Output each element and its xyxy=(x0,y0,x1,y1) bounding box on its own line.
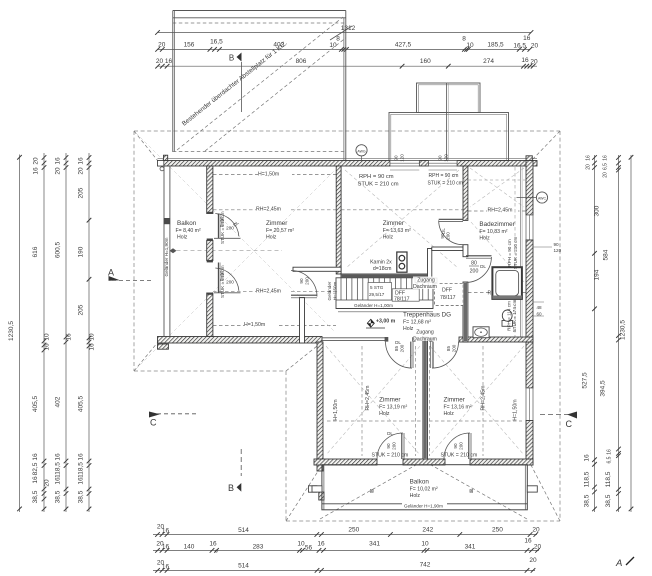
svg-text:Zugang: Zugang xyxy=(416,330,434,336)
svg-text:STUK = 210 cm: STUK = 210 cm xyxy=(372,453,409,459)
svg-text:B: B xyxy=(229,54,234,63)
svg-text:405,5: 405,5 xyxy=(78,395,85,412)
svg-text:RH=2,45m: RH=2,45m xyxy=(481,386,487,411)
svg-text:82,5: 82,5 xyxy=(32,462,39,475)
svg-text:RH=2,45m: RH=2,45m xyxy=(488,208,513,214)
svg-text:F= 13,16 m²: F= 13,16 m² xyxy=(444,405,472,411)
svg-text:Geländer H=1,90m: Geländer H=1,90m xyxy=(164,237,169,276)
svg-text:205: 205 xyxy=(78,187,85,198)
svg-text:78/117: 78/117 xyxy=(394,296,410,302)
svg-text:16: 16 xyxy=(32,476,39,484)
svg-text:20: 20 xyxy=(531,43,539,50)
svg-text:Holz: Holz xyxy=(410,493,421,499)
svg-text:RH=2,45m: RH=2,45m xyxy=(256,207,281,213)
svg-text:F= 20,57 m²: F= 20,57 m² xyxy=(266,228,294,234)
svg-text:806: 806 xyxy=(296,58,307,65)
svg-text:Zimmer: Zimmer xyxy=(444,397,465,404)
svg-text:16: 16 xyxy=(603,155,609,161)
svg-text:85: 85 xyxy=(394,346,399,352)
svg-text:F= 12,68 m²: F= 12,68 m² xyxy=(403,320,431,326)
svg-text:190: 190 xyxy=(78,246,85,257)
svg-text:DL: DL xyxy=(441,228,446,234)
svg-text:Badezimmer: Badezimmer xyxy=(479,221,514,228)
svg-text:90: 90 xyxy=(386,443,391,449)
svg-text:38,5: 38,5 xyxy=(78,490,85,503)
svg-text:402: 402 xyxy=(55,396,62,407)
svg-text:90: 90 xyxy=(394,155,399,161)
svg-text:STUK = 210 cm: STUK = 210 cm xyxy=(428,180,463,186)
svg-text:38,5: 38,5 xyxy=(32,490,39,503)
svg-text:205: 205 xyxy=(78,304,85,315)
svg-text:16: 16 xyxy=(55,477,62,485)
svg-text:200: 200 xyxy=(470,269,479,275)
svg-text:120: 120 xyxy=(554,248,562,253)
svg-text:Holz: Holz xyxy=(403,326,414,332)
svg-text:200: 200 xyxy=(452,344,457,352)
svg-text:Treppenhaus DG: Treppenhaus DG xyxy=(403,312,451,319)
svg-text:20: 20 xyxy=(530,59,538,66)
svg-text:80: 80 xyxy=(471,261,477,267)
svg-text:16: 16 xyxy=(78,453,85,461)
svg-text:Kamin 2x: Kamin 2x xyxy=(370,260,392,266)
svg-text:20: 20 xyxy=(156,58,164,65)
svg-text:20: 20 xyxy=(529,557,537,564)
svg-text:20: 20 xyxy=(603,172,609,178)
svg-text:RH=2,45m: RH=2,45m xyxy=(256,289,281,295)
svg-text:H=1,50m: H=1,50m xyxy=(333,399,339,420)
svg-text:16: 16 xyxy=(162,528,170,535)
svg-text:90: 90 xyxy=(554,242,560,247)
svg-text:Dachraum: Dachraum xyxy=(413,337,437,343)
svg-text:B: B xyxy=(228,483,234,493)
svg-text:16: 16 xyxy=(209,541,217,548)
svg-text:90: 90 xyxy=(438,155,443,161)
svg-text:20: 20 xyxy=(532,527,540,534)
svg-text:RH=2,45m: RH=2,45m xyxy=(365,386,371,411)
svg-text:427,5: 427,5 xyxy=(395,42,412,49)
svg-text:405,5: 405,5 xyxy=(32,395,39,412)
svg-text:20: 20 xyxy=(78,167,85,175)
svg-text:20: 20 xyxy=(158,42,166,49)
svg-text:Holz: Holz xyxy=(383,235,394,241)
svg-text:DL: DL xyxy=(395,340,401,345)
svg-text:⊠: ⊠ xyxy=(469,488,473,494)
svg-text:STUK = 210 cm: STUK = 210 cm xyxy=(220,265,225,298)
svg-text:Geländer H=1,00m: Geländer H=1,00m xyxy=(354,303,393,308)
svg-text:16,5: 16,5 xyxy=(513,43,526,50)
svg-text:A: A xyxy=(108,268,114,278)
svg-text:274: 274 xyxy=(483,58,494,65)
svg-text:118,5: 118,5 xyxy=(55,462,62,478)
svg-text:38,5: 38,5 xyxy=(605,494,612,507)
svg-text:16: 16 xyxy=(32,453,39,461)
svg-text:H=1,50m: H=1,50m xyxy=(258,171,279,177)
svg-text:10: 10 xyxy=(466,42,474,49)
svg-text:600,5: 600,5 xyxy=(55,241,62,258)
svg-text:F= 10,83 m²: F= 10,83 m² xyxy=(479,229,507,235)
svg-text:16: 16 xyxy=(607,449,613,455)
svg-text:STUK = 174 cm: STUK = 174 cm xyxy=(512,300,517,333)
svg-text:118,5: 118,5 xyxy=(584,471,591,487)
svg-text:185,5: 185,5 xyxy=(487,42,504,49)
svg-text:85: 85 xyxy=(446,346,451,352)
svg-text:Zimmer: Zimmer xyxy=(266,220,287,227)
svg-text:242: 242 xyxy=(422,527,433,534)
svg-text:6,5: 6,5 xyxy=(603,163,609,170)
svg-text:16: 16 xyxy=(66,333,73,341)
svg-text:Holz: Holz xyxy=(177,235,188,241)
svg-text:120: 120 xyxy=(444,154,449,162)
svg-text:10: 10 xyxy=(297,541,305,548)
svg-text:5 STG: 5 STG xyxy=(370,285,384,290)
svg-text:341: 341 xyxy=(369,541,380,548)
svg-text:10: 10 xyxy=(89,333,96,341)
svg-text:+3,00 m: +3,00 m xyxy=(376,319,396,325)
svg-text:16: 16 xyxy=(89,343,96,351)
svg-text:200: 200 xyxy=(305,277,310,285)
svg-text:16: 16 xyxy=(586,155,592,161)
svg-text:118,5: 118,5 xyxy=(605,471,612,487)
svg-text:200: 200 xyxy=(459,442,464,450)
svg-text:Balkon: Balkon xyxy=(177,220,197,227)
svg-text:Dachraum: Dachraum xyxy=(413,284,437,290)
svg-text:Holz: Holz xyxy=(266,235,277,241)
svg-text:20: 20 xyxy=(33,157,40,165)
svg-text:16: 16 xyxy=(55,157,62,165)
svg-text:16: 16 xyxy=(317,541,325,548)
svg-text:DL: DL xyxy=(480,264,486,269)
svg-text:DL: DL xyxy=(387,431,393,436)
svg-text:16: 16 xyxy=(165,58,173,65)
svg-text:Balkon: Balkon xyxy=(410,479,430,486)
svg-text:200: 200 xyxy=(400,344,405,352)
svg-text:120: 120 xyxy=(400,154,405,162)
svg-text:RPH = 114 cm: RPH = 114 cm xyxy=(507,301,512,331)
svg-text:156: 156 xyxy=(184,42,195,49)
svg-text:16: 16 xyxy=(55,453,62,461)
svg-text:16: 16 xyxy=(521,57,529,64)
svg-text:584: 584 xyxy=(603,249,610,260)
svg-text:16,5: 16,5 xyxy=(210,39,223,46)
svg-text:RPH = 90 cm: RPH = 90 cm xyxy=(507,239,512,267)
svg-text:38,5: 38,5 xyxy=(55,490,62,503)
svg-text:RPH = 90 cm: RPH = 90 cm xyxy=(359,174,394,180)
svg-text:10: 10 xyxy=(421,541,429,548)
svg-text:20: 20 xyxy=(586,164,592,170)
svg-text:F= 13,19 m²: F= 13,19 m² xyxy=(379,405,407,411)
svg-text:Geländer: Geländer xyxy=(327,281,332,300)
svg-text:16: 16 xyxy=(524,538,532,545)
svg-text:514: 514 xyxy=(238,563,249,570)
svg-text:616: 616 xyxy=(32,246,39,257)
svg-text:90: 90 xyxy=(299,278,304,284)
svg-text:⊠: ⊠ xyxy=(370,488,374,494)
svg-text:d=18cm: d=18cm xyxy=(373,266,392,272)
svg-text:1230,5: 1230,5 xyxy=(8,321,15,341)
svg-text:200: 200 xyxy=(392,442,397,450)
svg-text:38,5: 38,5 xyxy=(584,494,591,507)
svg-text:78/117: 78/117 xyxy=(440,295,456,301)
svg-text:90: 90 xyxy=(453,443,458,449)
svg-text:20: 20 xyxy=(44,479,51,487)
svg-text:250: 250 xyxy=(348,527,359,534)
svg-text:56: 56 xyxy=(305,545,313,552)
svg-text:8: 8 xyxy=(336,36,340,43)
svg-text:Holz: Holz xyxy=(379,411,390,417)
svg-text:283: 283 xyxy=(253,544,264,551)
svg-text:16: 16 xyxy=(78,157,85,165)
svg-text:16: 16 xyxy=(523,35,531,42)
svg-text:250: 250 xyxy=(492,527,503,534)
svg-text:A: A xyxy=(615,558,622,569)
svg-text:118,5: 118,5 xyxy=(78,462,85,478)
svg-text:9: 9 xyxy=(215,549,218,554)
svg-text:20: 20 xyxy=(55,167,62,175)
svg-text:H=1,50m: H=1,50m xyxy=(333,281,338,300)
svg-text:AWG: AWG xyxy=(357,149,366,153)
svg-text:200: 200 xyxy=(226,280,234,285)
svg-text:341: 341 xyxy=(465,544,476,551)
svg-text:Geländer H=1,90m: Geländer H=1,90m xyxy=(404,504,443,509)
svg-text:H=1,50m: H=1,50m xyxy=(513,399,519,420)
svg-text:16: 16 xyxy=(33,167,40,175)
svg-text:10: 10 xyxy=(44,333,51,341)
svg-text:STUK = 210 cm: STUK = 210 cm xyxy=(441,453,478,459)
svg-text:STUK = 210 cm: STUK = 210 cm xyxy=(220,211,225,244)
svg-text:29,5/17: 29,5/17 xyxy=(369,292,385,297)
svg-text:20: 20 xyxy=(534,544,542,551)
svg-text:514: 514 xyxy=(238,527,249,534)
svg-text:Zugang: Zugang xyxy=(417,278,435,284)
svg-text:6,5: 6,5 xyxy=(607,456,613,463)
svg-text:Holz: Holz xyxy=(479,236,490,242)
svg-text:Holz: Holz xyxy=(444,411,455,417)
svg-text:742: 742 xyxy=(420,562,431,569)
svg-text:16: 16 xyxy=(584,454,591,462)
svg-text:140: 140 xyxy=(184,544,195,551)
svg-text:16: 16 xyxy=(162,544,170,551)
svg-text:194: 194 xyxy=(594,269,601,280)
svg-text:16: 16 xyxy=(78,477,85,485)
svg-text:1230,5: 1230,5 xyxy=(620,320,627,340)
svg-text:H=1,50m: H=1,50m xyxy=(244,322,265,328)
svg-text:200: 200 xyxy=(446,232,451,240)
svg-text:F= 10,02 m²: F= 10,02 m² xyxy=(410,487,438,493)
svg-text:C: C xyxy=(150,418,157,428)
svg-text:DFF: DFF xyxy=(442,288,452,294)
svg-text:16: 16 xyxy=(44,343,51,351)
svg-text:F= 8,40 m²: F= 8,40 m² xyxy=(176,228,201,234)
svg-text:394,5: 394,5 xyxy=(600,380,607,397)
svg-text:C: C xyxy=(566,419,573,429)
svg-text:RPH = 90 cm: RPH = 90 cm xyxy=(429,173,459,179)
svg-text:STUK = 210 cm: STUK = 210 cm xyxy=(358,181,399,187)
svg-text:160: 160 xyxy=(420,58,431,65)
svg-text:AWC: AWC xyxy=(538,197,547,201)
svg-text:527,5: 527,5 xyxy=(582,372,589,389)
svg-text:16: 16 xyxy=(162,564,170,571)
svg-text:48: 48 xyxy=(537,305,543,310)
svg-text:300: 300 xyxy=(594,205,601,216)
svg-text:F= 13,63 m²: F= 13,63 m² xyxy=(383,228,411,234)
svg-text:Zimmer: Zimmer xyxy=(379,397,400,404)
svg-text:Zimmer: Zimmer xyxy=(383,220,404,227)
svg-text:STUK = 210 cm: STUK = 210 cm xyxy=(513,237,518,270)
